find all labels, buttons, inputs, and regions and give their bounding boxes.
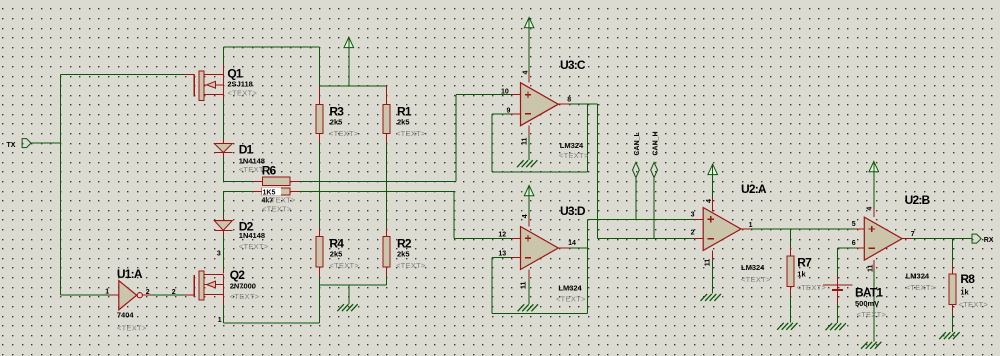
svg-text:1k: 1k [960,287,969,296]
svg-text:<TEXT>: <TEXT> [857,310,887,319]
svg-text:RX: RX [984,237,994,244]
svg-text:Q2: Q2 [230,268,246,282]
svg-text:<TEXT>: <TEXT> [396,129,426,138]
svg-text:CAN_L: CAN_L [634,131,641,155]
svg-text:4: 4 [867,207,874,211]
svg-text:11: 11 [868,264,875,272]
svg-text:2: 2 [172,289,176,296]
svg-text:<TEXT>: <TEXT> [239,165,269,174]
svg-text:12: 12 [498,232,506,239]
svg-text:8: 8 [567,97,571,104]
svg-text:LM324: LM324 [558,284,582,293]
svg-text:6: 6 [852,240,856,247]
svg-text:LM324: LM324 [906,271,930,280]
svg-text:R4: R4 [329,237,344,251]
svg-text:<TEXT>: <TEXT> [741,275,771,284]
svg-text:D1: D1 [239,142,254,156]
svg-text:4: 4 [523,71,530,75]
svg-text:4: 4 [522,214,529,218]
svg-text:R1: R1 [397,104,412,118]
svg-text:9: 9 [507,108,511,115]
svg-text:<TEXT>: <TEXT> [117,324,147,333]
svg-text:10: 10 [501,88,509,95]
svg-text:<TEXT>: <TEXT> [262,204,292,213]
svg-text:<TEXT>: <TEXT> [329,129,359,138]
svg-text:1: 1 [218,317,222,324]
svg-text:<TEXT>: <TEXT> [559,151,589,160]
svg-text:14: 14 [568,240,576,247]
svg-text:7404: 7404 [117,310,135,319]
svg-text:2k5: 2k5 [330,250,343,259]
svg-text:CAN_H: CAN_H [652,131,659,155]
svg-text:1k: 1k [797,270,806,279]
svg-text:U2:A: U2:A [741,182,767,196]
svg-text:2SJ118: 2SJ118 [227,80,252,89]
svg-text:<TEXT>: <TEXT> [227,88,257,97]
svg-text:<TEXT>: <TEXT> [906,283,936,292]
svg-text:2N7000: 2N7000 [230,282,256,291]
svg-text:3: 3 [217,251,221,258]
svg-text:<TEXT>: <TEXT> [329,261,359,270]
svg-text:TX: TX [7,142,16,149]
svg-text:3: 3 [691,211,695,218]
svg-text:U2:B: U2:B [905,193,931,207]
svg-text:<TEXT>: <TEXT> [396,261,426,270]
svg-text:U3:C: U3:C [560,58,586,72]
svg-text:<TEXT>: <TEXT> [239,242,269,251]
svg-text:R3: R3 [329,104,344,118]
svg-text:11: 11 [705,259,712,267]
svg-text:4: 4 [706,199,713,203]
svg-text:BAT1: BAT1 [855,286,883,300]
svg-text:1N4148: 1N4148 [239,231,265,240]
svg-text:7: 7 [911,231,915,238]
svg-text:U3:D: U3:D [560,204,586,218]
svg-text:R8: R8 [960,272,975,286]
svg-text:R2: R2 [397,237,412,251]
svg-text:U1:A: U1:A [117,267,143,281]
svg-text:2: 2 [691,230,695,237]
svg-text:LM324: LM324 [741,263,765,272]
svg-text:1: 1 [105,289,109,296]
svg-text:2: 2 [146,289,150,296]
svg-text:LM324: LM324 [560,141,584,150]
svg-text:<TEXT>: <TEXT> [266,195,296,204]
svg-text:5: 5 [852,221,856,228]
svg-text:500mV: 500mV [855,299,879,308]
svg-text:11: 11 [521,281,528,289]
svg-text:13: 13 [498,251,506,258]
svg-text:2k5: 2k5 [397,250,410,259]
svg-text:<TEXT>: <TEXT> [797,283,827,292]
svg-text:<TEXT>: <TEXT> [230,292,260,301]
svg-text:2k5: 2k5 [330,117,343,126]
svg-text:1N4148: 1N4148 [239,156,265,165]
svg-text:2k5: 2k5 [397,117,410,126]
svg-text:11: 11 [522,137,529,145]
svg-text:<TEXT>: <TEXT> [556,295,586,304]
svg-text:<TEXT>: <TEXT> [959,300,989,309]
svg-text:1: 1 [749,222,753,229]
svg-text:R7: R7 [797,256,812,270]
